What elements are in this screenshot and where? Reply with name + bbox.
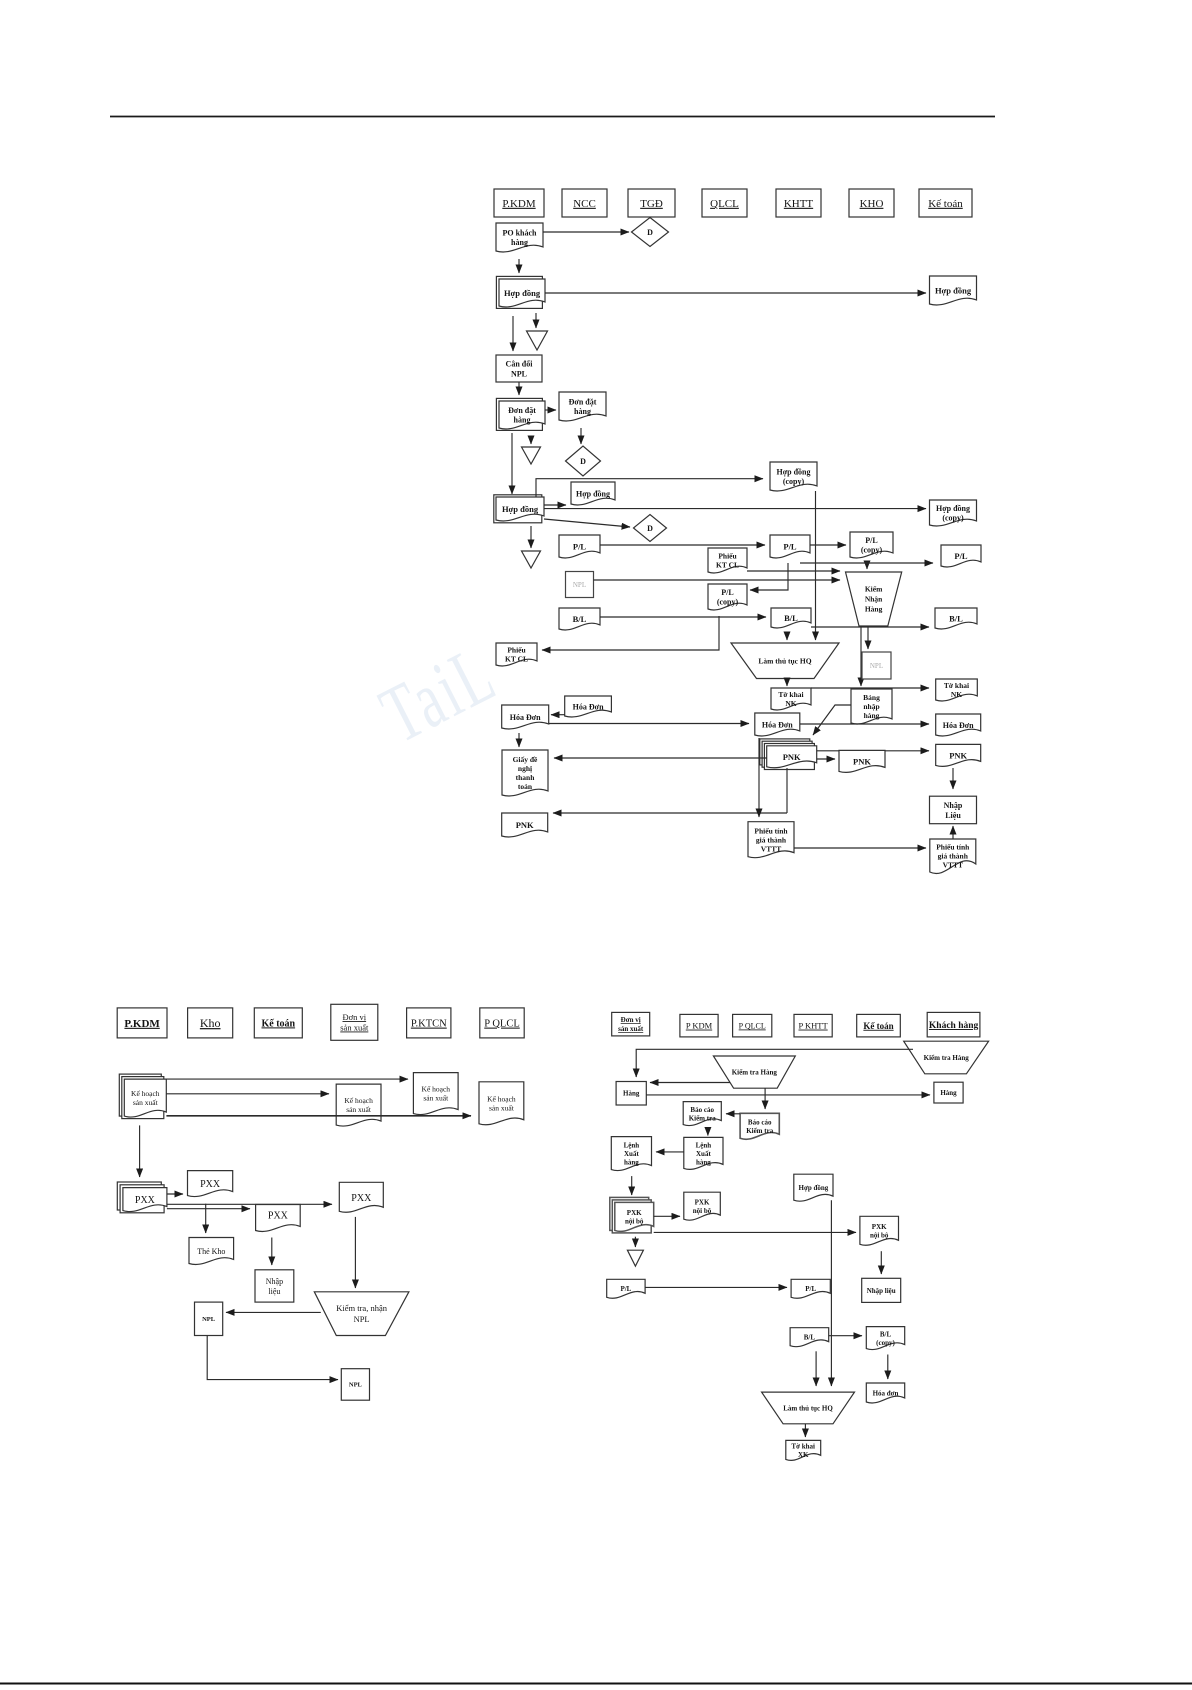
svg-text:sản xuất: sản xuất (423, 1094, 449, 1103)
doc Bảng nhập hàng (KHO) (851, 689, 892, 724)
svg-text:hàng: hàng (864, 711, 880, 720)
svg-text:Giấy đề: Giấy đề (513, 755, 538, 764)
doc Hóa Đơn (P.KDM) (502, 705, 549, 729)
svg-text:Làm thủ tục HQ: Làm thủ tục HQ (758, 656, 811, 665)
arrow NPL→NPL2 (207, 1336, 338, 1380)
svg-text:Thẻ Kho: Thẻ Kho (197, 1247, 225, 1256)
process Nhập liệu (Kế toán, right) (862, 1278, 901, 1302)
svg-text:NPL: NPL (349, 1382, 363, 1389)
svg-text:P/L: P/L (620, 1285, 631, 1293)
svg-text:P/L: P/L (865, 536, 877, 545)
svg-text:Kiểm tra, nhận: Kiểm tra, nhận (336, 1303, 387, 1313)
svg-text:NCC: NCC (573, 198, 596, 210)
doc stack Đơn đặt hàng (P.KDM) (496, 398, 545, 430)
svg-text:Kiểm tra Hàng: Kiểm tra Hàng (732, 1069, 778, 1077)
svg-text:Cân đối: Cân đối (506, 359, 534, 368)
arrow Hóa Đơn→KHTT (549, 723, 749, 725)
doc stack Hợp đồng 2 (P.KDM) (494, 495, 544, 523)
arrow Hợp đồng→Kế toán (545, 292, 926, 294)
doc PNK (Kế toán) (936, 744, 981, 766)
svg-text:Tờ khai: Tờ khai (944, 681, 969, 690)
arrow B/L→B/L copy (829, 1335, 862, 1337)
svg-text:Kế hoạch: Kế hoạch (422, 1085, 451, 1094)
svg-text:Tờ khai: Tờ khai (791, 1443, 815, 1451)
doc Hợp đồng (P.KHTT) (794, 1174, 833, 1201)
svg-text:KT CL: KT CL (716, 561, 739, 570)
header2 Kho (188, 1008, 233, 1038)
arrow Phiếu KT CL→Kiểm Nhận Hàng (747, 570, 840, 572)
decision D1 (632, 218, 669, 247)
process Nhập liệu (Kế toán) (255, 1270, 294, 1302)
svg-text:NPL: NPL (511, 369, 527, 378)
svg-text:Phiếu tính: Phiếu tính (754, 826, 788, 835)
doc Hợp đồng (NCC) (571, 482, 615, 505)
doc P/L (ĐVSX) (607, 1279, 645, 1298)
svg-text:B/L: B/L (880, 1330, 892, 1338)
svg-text:Phiếu: Phiếu (718, 552, 736, 561)
arrow Báo cáo→Báo cáo (726, 1113, 740, 1115)
doc Tờ khai NK (Kế toán) (936, 679, 978, 701)
svg-text:(copy): (copy) (783, 477, 805, 486)
header KHTT (776, 189, 821, 217)
arrow PNK→PNK P.KDM (553, 812, 787, 814)
svg-text:Xuất: Xuất (696, 1150, 711, 1158)
doc Phiếu tính giá thành VTTT (KHTT) (748, 822, 794, 858)
svg-text:B/L: B/L (949, 614, 963, 624)
svg-text:sản xuất: sản xuất (346, 1105, 372, 1114)
svg-text:liệu: liệu (268, 1287, 280, 1296)
process Kiểm tra nhận NPL (314, 1292, 409, 1336)
header2 P.KTCN (407, 1008, 451, 1038)
arrow →connector 2 (530, 437, 532, 444)
arrow B/L→Làm thủ tục HQ (786, 634, 788, 640)
wire Hợp đồng↓Làm thủ tục HQ (830, 1200, 832, 1386)
svg-text:sản xuất: sản xuất (340, 1023, 369, 1033)
svg-text:Kiểm: Kiểm (865, 585, 883, 594)
arrow PXK→Nhập liệu (880, 1251, 882, 1274)
svg-text:D: D (647, 524, 653, 533)
header NCC (562, 189, 607, 217)
svg-text:D: D (580, 457, 586, 466)
svg-text:P.KTCN: P.KTCN (411, 1019, 447, 1030)
doc stack PNK (KHTT) (760, 739, 817, 770)
svg-text:PXX: PXX (351, 1193, 372, 1204)
doc Kế hoạch sản xuất (ĐVSX) (336, 1084, 381, 1126)
process Nhập Liệu (Kế toán) (930, 796, 977, 824)
doc Lệnh Xuất hàng (ĐVSX) (611, 1137, 651, 1171)
wire Hợp đồng copy↓Làm thủ tục HQ (815, 491, 817, 640)
doc P/L (NCC) (559, 535, 600, 558)
doc Phiếu KT CL (QLCL) (708, 548, 747, 573)
svg-text:Kế toán: Kế toán (928, 198, 963, 210)
doc Thẻ Kho (Kho) (189, 1238, 234, 1265)
svg-text:D: D (647, 228, 653, 237)
header3 P.KHTT (794, 1014, 832, 1037)
svg-text:nhập: nhập (863, 702, 879, 711)
process Kiểm tra Hàng (Khách hàng) (904, 1041, 989, 1074)
watermark TaiL (partial TaiLieu.VN) (367, 628, 510, 761)
svg-text:QLCL: QLCL (710, 198, 739, 210)
header2 Kế toán (254, 1008, 302, 1038)
svg-text:nội bộ: nội bộ (870, 1232, 889, 1240)
svg-text:Nhập: Nhập (944, 801, 963, 810)
doc PXX (Kế toán) (256, 1205, 301, 1232)
arrow P/L→P.KHTT (645, 1286, 787, 1288)
arrow Hóa Đơn→Kế toán (800, 723, 929, 725)
arrow Làm thủ tục HQ→Tờ khai XK (804, 1424, 806, 1437)
svg-text:Đơn đặt: Đơn đặt (569, 398, 597, 407)
arrow Lệnh Xuất hàng→ĐVSX (656, 1151, 684, 1153)
arrow Hóa Đơn NCC→P.KDM (551, 714, 565, 716)
svg-text:Hợp đồng: Hợp đồng (935, 286, 972, 296)
arrow PXX→Kế toán (167, 1208, 250, 1210)
process Làm thủ tục HQ 2 (762, 1392, 855, 1424)
svg-text:NK: NK (785, 699, 796, 708)
svg-text:Hợp đồng: Hợp đồng (504, 288, 541, 298)
svg-text:Đơn vị: Đơn vị (342, 1012, 366, 1022)
svg-text:B/L: B/L (804, 1334, 816, 1342)
svg-text:P/L: P/L (573, 542, 587, 552)
svg-text:Kiểm tra: Kiểm tra (689, 1114, 717, 1122)
arrow PO→D (543, 231, 629, 233)
svg-text:PXX: PXX (268, 1211, 289, 1222)
doc stack Hợp đồng (P.KDM) (496, 276, 545, 308)
arrow Hợp đồng→connector (535, 313, 537, 328)
arrow Tờ khai NK→Kế toán (811, 687, 929, 689)
process Hàng (ĐVSX) (616, 1082, 646, 1106)
svg-text:Kế toán: Kế toán (261, 1018, 295, 1029)
wire Hóa Đơn KHTT↓Phiếu tính giá thành (758, 738, 760, 817)
svg-text:PXK: PXK (627, 1209, 642, 1217)
doc Giấy đề nghị thanh toán (P.KDM) (502, 750, 548, 796)
svg-text:toán: toán (518, 782, 533, 791)
svg-text:P QLCL: P QLCL (484, 1019, 520, 1030)
svg-text:Kế toán: Kế toán (863, 1021, 893, 1031)
doc PXX (ĐVSX) (339, 1182, 383, 1212)
svg-text:sản xuất: sản xuất (618, 1025, 644, 1033)
arrow B/L→KHTT (600, 616, 766, 618)
doc PO khách hàng (496, 223, 543, 252)
arrow PNK→PNK KHO (817, 758, 835, 760)
doc PNK (KHO) (839, 750, 885, 772)
svg-text:Kho: Kho (200, 1016, 221, 1030)
svg-text:hàng: hàng (514, 416, 531, 425)
svg-text:TGĐ: TGĐ (640, 198, 663, 210)
svg-text:Kế hoạch: Kế hoạch (344, 1096, 373, 1105)
arrow Báo cáo→Lệnh Xuất hàng (707, 1131, 709, 1135)
svg-text:NPL: NPL (870, 662, 883, 670)
process Kiểm tra Hàng (P.QLCL) (713, 1056, 795, 1088)
doc stack Kế hoạch sản xuất (P.KDM) (119, 1074, 166, 1119)
doc stack PXX (P.KDM) (117, 1182, 167, 1213)
svg-text:PNK: PNK (853, 756, 871, 766)
arrow PXK→P.KDM (654, 1215, 680, 1217)
NPL gray box (KHO) (862, 652, 891, 679)
svg-text:Hàng: Hàng (623, 1090, 640, 1098)
svg-text:P QLCL: P QLCL (739, 1022, 766, 1031)
arrow Đơn đặt hàng→D2 (580, 428, 582, 444)
svg-text:VTTT: VTTT (943, 861, 963, 870)
header QLCL (702, 189, 747, 217)
doc Kế hoạch sản xuất (P.KTCN) (413, 1073, 458, 1115)
NPL gray box (NCC) (566, 572, 594, 598)
wire Kiểm Nhận Hàng↓Bảng nhập hàng (860, 626, 862, 686)
doc P/L (copy) (KHO) (850, 532, 893, 558)
svg-text:nội bộ: nội bộ (625, 1218, 644, 1226)
arrow P/L→P/L copy QLCL (750, 563, 788, 590)
svg-text:giá thành: giá thành (938, 852, 969, 861)
arrow KHSX→PXX (139, 1125, 141, 1177)
svg-text:P KDM: P KDM (686, 1021, 713, 1031)
offpage connector 2 (522, 447, 541, 464)
arrow Hợp đồng→Cân đối NPL (512, 316, 514, 351)
svg-text:Hóa Đơn: Hóa Đơn (573, 702, 604, 711)
arrow KHSX→P.KTCN (166, 1078, 408, 1080)
doc P/L (P.KHTT) (791, 1279, 830, 1298)
svg-text:Phiếu tính: Phiếu tính (936, 843, 970, 852)
doc Kế hoạch sản xuất (P.QLCL) (479, 1082, 524, 1125)
process Cân đối NPL (496, 355, 542, 382)
arrow P/L copy→Phiếu KT CL (542, 616, 719, 650)
doc Hợp đồng (copy) (Kế toán) (930, 500, 977, 526)
offpage connector 1 (527, 331, 548, 350)
doc Hợp đồng (Kế toán) (930, 276, 977, 305)
svg-text:KHTT: KHTT (784, 198, 814, 210)
svg-text:Xuất: Xuất (624, 1150, 639, 1158)
NPL box (Kế toán) (195, 1302, 223, 1335)
svg-text:NPL: NPL (354, 1314, 370, 1324)
arrow Cân đối→Đơn đặt hàng (518, 382, 520, 395)
svg-text:(copy): (copy) (861, 546, 883, 555)
arrow P/L→P/L copy (810, 544, 846, 546)
header TGĐ (628, 189, 675, 217)
arrow PNK→Giấy đề nghị thanh toán (554, 757, 767, 759)
svg-text:nghị: nghị (518, 764, 532, 773)
svg-text:Hợp đồng: Hợp đồng (936, 504, 970, 513)
doc B/L (P.KHTT) (790, 1328, 829, 1347)
svg-text:Hợp đồng: Hợp đồng (777, 468, 811, 477)
svg-text:Đơn vị: Đơn vị (621, 1016, 641, 1024)
doc B/L (copy) (Kế toán) (866, 1327, 904, 1350)
arrow PNK→Nhập Liệu (952, 768, 954, 789)
arrow PXX→Thẻ Kho (205, 1204, 207, 1233)
arrow PO→Hợp đồng (518, 259, 520, 273)
doc Tờ khai XK (P.KHTT) (786, 1440, 821, 1460)
arrow Phiếu tính→Nhập Liệu (952, 826, 954, 839)
doc Phiếu tính giá thành VTTT (Kế toán) (930, 839, 976, 873)
svg-text:(copy): (copy) (876, 1339, 895, 1347)
header P.KDM (494, 189, 544, 217)
doc P/L (copy) (QLCL) (708, 584, 747, 610)
arrow Hóa Đơn→Giấy đề nghị (518, 733, 520, 747)
header3 Kế toán (857, 1014, 901, 1037)
arrow Phiếu tính→Kế toán (794, 847, 926, 849)
svg-text:Nhận: Nhận (865, 595, 883, 604)
arrow Kiểm tra Hàng→Báo cáo (764, 1088, 766, 1109)
arrow KHSX→P.QLCL (166, 1115, 471, 1117)
arrow Kiểm Nhận Hàng→NPL (867, 626, 869, 649)
process Hàng (Khách hàng) (934, 1082, 963, 1103)
header KHO (849, 189, 894, 217)
doc B/L (KHTT) (771, 608, 811, 628)
svg-text:Tờ khai: Tờ khai (778, 690, 803, 699)
arrow P/L copy→Kiểm Nhận Hàng (866, 563, 868, 569)
arrow NPL→Kiểm Nhận Hàng (594, 579, 841, 581)
svg-text:Kiểm tra: Kiểm tra (746, 1127, 774, 1135)
svg-text:sản xuất: sản xuất (489, 1103, 515, 1112)
doc Đơn đặt hàng (NCC) (559, 392, 606, 421)
svg-text:Báo cáo: Báo cáo (748, 1119, 772, 1127)
header3 Khách hàng (927, 1012, 980, 1037)
arrow Kiểm tra→NPL (226, 1311, 321, 1313)
svg-text:PXX: PXX (135, 1195, 156, 1206)
header Kế toán (919, 189, 972, 217)
svg-text:Lệnh: Lệnh (696, 1141, 712, 1149)
NPL box 2 (ĐVSX) (341, 1369, 369, 1401)
arrow PXK→Kế toán (654, 1231, 856, 1233)
svg-text:P.KDM: P.KDM (502, 198, 536, 210)
svg-text:P/L: P/L (783, 542, 797, 552)
arrow KHSX→Đơn vị sản xuất (166, 1093, 329, 1095)
arrow PXX→Nhập liệu (271, 1238, 273, 1266)
arrow PXX→Kiểm tra nhận NPL (354, 1217, 356, 1288)
doc Tờ khai NK (KHTT) (771, 688, 811, 710)
arrow Hợp đồng 2→Hợp đồng (copy) QLCL (536, 479, 763, 497)
arrow P/L→KHTT (600, 544, 765, 546)
svg-text:Liệu: Liệu (945, 811, 961, 820)
svg-text:sản xuất: sản xuất (133, 1098, 159, 1107)
svg-text:Hàng: Hàng (940, 1089, 957, 1097)
svg-text:Hóa Đơn: Hóa Đơn (943, 721, 974, 730)
offpage connector 4 (627, 1250, 643, 1266)
arrow Hợp đồng 2→Hợp đồng (copy) Kế toán (544, 508, 926, 510)
svg-text:Đơn đặt: Đơn đặt (508, 406, 536, 415)
arrow PXK→connector (634, 1237, 636, 1247)
arrow Bảng nhập hàng→PNK stack (813, 705, 851, 735)
svg-text:XK: XK (798, 1451, 809, 1459)
arrow PXX→Kho (167, 1193, 183, 1195)
svg-text:Hợp đồng: Hợp đồng (799, 1184, 829, 1192)
header2 P.QLCL (480, 1008, 524, 1038)
svg-text:KT CL: KT CL (505, 655, 528, 664)
header3 Đơn vị sản xuất (612, 1012, 650, 1036)
svg-text:Bảng: Bảng (863, 693, 880, 702)
svg-text:Hóa Đơn: Hóa Đơn (510, 713, 541, 722)
doc Hóa Đơn (Kế toán) (936, 714, 981, 736)
svg-text:KHO: KHO (860, 198, 884, 210)
header2 Đơn vị sản xuất (331, 1004, 378, 1040)
doc Báo cáo Kiểm tra (P.KDM) (683, 1102, 721, 1126)
doc Hóa Đơn (NCC) (565, 696, 612, 717)
doc Hợp đồng (copy) (QLCL) (770, 462, 817, 491)
offpage connector 3 (522, 551, 541, 568)
svg-text:(copy): (copy) (717, 598, 739, 607)
arrow Hợp đồng 2→D3 (544, 519, 630, 527)
header2 P.KDM (117, 1008, 167, 1038)
svg-text:Nhập liệu: Nhập liệu (867, 1287, 896, 1295)
svg-text:P/L: P/L (954, 551, 968, 561)
doc Báo cáo Kiểm tra (P.QLCL) (740, 1113, 779, 1139)
svg-text:hàng: hàng (624, 1159, 639, 1167)
svg-text:P/L: P/L (805, 1285, 816, 1293)
svg-text:hàng: hàng (511, 238, 528, 247)
svg-text:PNK: PNK (516, 820, 534, 830)
arrow B/L→Làm thủ tục HQ (815, 1351, 817, 1386)
doc Lệnh Xuất hàng (P.KDM) (684, 1137, 723, 1169)
arrow PXX→ĐVSX (167, 1203, 332, 1205)
svg-text:B/L: B/L (784, 613, 798, 623)
svg-text:P KHTT: P KHTT (798, 1021, 828, 1031)
svg-text:Nhập: Nhập (266, 1277, 283, 1286)
svg-text:Kế hoạch: Kế hoạch (131, 1089, 160, 1098)
arrow B/L copy→Hóa đơn (887, 1355, 889, 1380)
svg-text:NPL: NPL (573, 581, 586, 589)
doc PXK nội bộ (Kế toán) (860, 1216, 899, 1245)
arrow Đơn đặt hàng→copy (545, 409, 556, 411)
arrow Kiểm tra Hàng 2→Hàng (650, 1082, 730, 1084)
svg-text:Làm thủ tục HQ: Làm thủ tục HQ (783, 1404, 833, 1412)
arrow →P/L Kế toán (800, 562, 933, 564)
arrow →connector 3 (530, 526, 532, 548)
svg-text:Lệnh: Lệnh (624, 1142, 640, 1150)
process Kiểm Nhận Hàng (846, 572, 902, 626)
doc Phiếu KT CL (P.KDM) (496, 643, 537, 666)
arrow PNK→PNK Kế toán (817, 750, 929, 752)
doc Hóa đơn (Kế toán) (866, 1383, 904, 1403)
header3 P.QLCL (733, 1014, 772, 1037)
arrow Lệnh Xuất hàng→PXK (631, 1176, 633, 1195)
svg-text:Kế hoạch: Kế hoạch (487, 1094, 516, 1103)
svg-text:PO khách: PO khách (502, 229, 537, 238)
doc B/L (NCC) (559, 608, 600, 630)
svg-text:VTTT: VTTT (761, 844, 781, 853)
svg-text:hàng: hàng (574, 407, 591, 416)
svg-text:P.KDM: P.KDM (124, 1018, 160, 1030)
doc PNK (P.KDM) (502, 813, 548, 837)
doc Hóa Đơn (KHTT) (755, 713, 800, 736)
svg-text:PNK: PNK (949, 750, 967, 760)
svg-text:thanh: thanh (516, 773, 536, 782)
doc P/L (Kế toán) (941, 545, 981, 567)
svg-text:B/L: B/L (573, 614, 587, 624)
svg-text:NK: NK (951, 690, 962, 699)
arrow Hàng→Hàng Khách hàng (646, 1094, 930, 1096)
doc stack PXK nội bộ (ĐVSX) (610, 1197, 654, 1233)
arrow Kiểm tra Hàng→Hàng (636, 1049, 913, 1077)
header3 P.KDM (680, 1014, 718, 1037)
svg-text:P/L: P/L (721, 588, 733, 597)
svg-text:Hóa đơn: Hóa đơn (873, 1390, 899, 1398)
svg-text:Phiếu: Phiếu (507, 646, 525, 655)
svg-text:NPL: NPL (202, 1316, 216, 1323)
arrow Hợp đồng 2→Hợp đồng NCC (544, 504, 566, 506)
doc PXK nội bộ (P.KDM) (684, 1192, 721, 1220)
doc B/L (Kế toán) (935, 608, 977, 629)
svg-text:nội bộ: nội bộ (693, 1207, 712, 1215)
svg-text:PXK: PXK (695, 1198, 710, 1206)
decision D3 (634, 515, 667, 542)
svg-text:Hợp đồng: Hợp đồng (502, 504, 539, 514)
decision D2 (566, 446, 601, 476)
bottom page edge line (0, 1683, 1192, 1685)
doc P/L (KHTT) (770, 535, 810, 558)
svg-text:Hợp đồng: Hợp đồng (576, 489, 610, 498)
svg-text:giá thành: giá thành (756, 835, 787, 844)
doc PXX (Kho) (188, 1171, 233, 1197)
svg-text:(copy): (copy) (942, 514, 964, 523)
svg-text:Hóa Đơn: Hóa Đơn (762, 720, 793, 729)
svg-text:PXK: PXK (872, 1223, 887, 1231)
